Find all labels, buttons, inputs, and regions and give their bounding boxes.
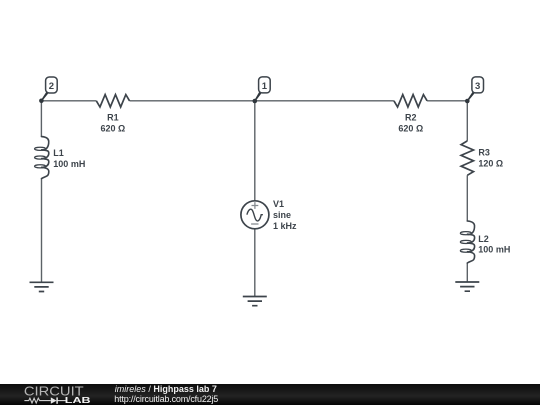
node 1	[253, 77, 271, 103]
wire L1 bottom to ground	[41, 179, 43, 283]
wire node 3 down to R3	[466, 101, 468, 141]
ground right	[455, 282, 479, 291]
CircuitLab logo	[0, 384, 110, 405]
wire node2 to R1 left	[41, 100, 96, 102]
svg-text:2: 2	[49, 81, 54, 92]
resistor R3	[461, 141, 503, 175]
footer text	[115, 384, 217, 394]
svg-text:620 Ω: 620 Ω	[398, 123, 423, 133]
wire node1 to R2 left	[255, 100, 394, 102]
svg-text:L1: L1	[53, 148, 64, 158]
node 2	[39, 77, 57, 103]
svg-text:100 mH: 100 mH	[478, 245, 510, 255]
svg-text:120 Ω: 120 Ω	[478, 158, 503, 168]
svg-text:L2: L2	[478, 234, 489, 244]
ground middle	[243, 297, 267, 306]
svg-text:1: 1	[262, 81, 268, 92]
resistor R1	[96, 95, 129, 134]
svg-text:1 kHz: 1 kHz	[273, 221, 297, 231]
svg-text:R2: R2	[405, 113, 417, 123]
wire R1 right to node 1	[130, 100, 255, 102]
wire R2 right to node 3	[427, 100, 467, 102]
voltage source V1	[241, 199, 297, 231]
svg-text:R1: R1	[107, 113, 119, 123]
wire node 2 down to L1	[40, 101, 42, 137]
node 3	[465, 77, 484, 103]
svg-text:R3: R3	[478, 147, 490, 157]
inductor L1	[35, 137, 86, 179]
svg-text:620 Ω: 620 Ω	[101, 123, 126, 133]
inductor L2	[460, 221, 510, 263]
svg-text:V1: V1	[273, 199, 284, 209]
wire R3 to L2	[466, 175, 468, 221]
svg-text:3: 3	[475, 81, 480, 92]
ground left	[30, 282, 54, 291]
wire node 1 down to V1	[254, 101, 256, 201]
footer bar	[0, 384, 540, 405]
svg-text:LAB: LAB	[65, 395, 91, 405]
resistor R2	[394, 95, 427, 134]
svg-text:100 mH: 100 mH	[53, 159, 85, 169]
svg-text:sine: sine	[273, 210, 291, 220]
wire V1 bottom to ground	[254, 229, 256, 297]
wire L2 bottom to ground	[466, 263, 468, 282]
